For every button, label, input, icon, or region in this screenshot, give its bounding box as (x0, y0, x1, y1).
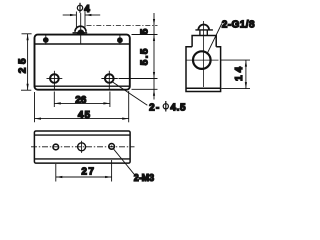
dim 45 dimension line (35, 118, 129, 120)
G1/8 port circle (187, 51, 219, 69)
hole 4.5 left (47, 71, 63, 90)
plunger top dash-dot line (87, 24, 158, 26)
screw hole top-right (filled) (117, 35, 123, 44)
dim 14 extension lines (221, 60, 250, 89)
bottom view centerline (31, 146, 135, 148)
label 2-G1/8 (222, 19, 255, 30)
svg-text:5.5: 5.5 (140, 48, 151, 65)
svg-text:27: 27 (81, 167, 94, 178)
dim 5 extension tick (body top) (132, 34, 158, 36)
bottom view outline (34, 131, 130, 163)
leader 2-phi4.5 (112, 82, 148, 106)
plunger centerline front (80, 13, 82, 44)
label 2-phi4.5 (149, 101, 186, 113)
label phi4 (77, 3, 90, 15)
svg-text:2-M3: 2-M3 (134, 173, 155, 184)
svg-text:2-G1/8: 2-G1/8 (222, 19, 255, 30)
M3 hole left (53, 144, 59, 150)
front view body outline (35, 35, 130, 90)
dim 27 extension lines (56, 160, 112, 182)
dim 26 extension lines (54, 92, 110, 108)
svg-text:4.5: 4.5 (170, 102, 186, 113)
label 2-M3 (134, 173, 155, 184)
dim 5.5 extension tick (bottom) (132, 88, 158, 90)
dim phi4 arrows (63, 14, 100, 16)
svg-text:2-: 2- (149, 102, 159, 113)
dim 25 extension lines (21, 34, 32, 90)
svg-text:26: 26 (75, 95, 87, 106)
front view flange line (35, 43, 130, 45)
M3 hole right (109, 144, 115, 150)
side view plunger dome (195, 24, 213, 35)
dim 5 / 5.5 vertical dimension line (153, 13, 155, 100)
front view bottom inner line (35, 85, 130, 87)
svg-text:45: 45 (78, 110, 91, 121)
svg-text:25: 25 (17, 58, 28, 73)
dim 26 dimension line (54, 102, 110, 104)
svg-text:5: 5 (140, 28, 151, 34)
side view centerline (203, 21, 205, 87)
dim 5.5 extension tick (hole line) (119, 78, 158, 80)
dim 14 dimension line (245, 60, 247, 89)
leader 2-M3 (113, 149, 136, 177)
label 45 (78, 110, 91, 121)
dim 45 extension lines (35, 91, 129, 122)
hole 4.5 right (101, 71, 117, 90)
leader 2-G1/8 (207, 24, 222, 55)
center stem hole (78, 141, 86, 153)
dim 25 dimension line (27, 34, 29, 90)
label 27 (81, 167, 94, 178)
label 5 (140, 28, 151, 34)
svg-text:4: 4 (84, 4, 90, 15)
label 5.5 (140, 48, 151, 65)
plunger dome front view (73, 26, 88, 34)
svg-text:14: 14 (234, 66, 245, 81)
label 25 (17, 58, 28, 73)
side view body outline (186, 36, 221, 92)
dim phi4 extension lines (76, 12, 85, 28)
label 26 (75, 95, 87, 106)
screw hole top-left (filled) (43, 35, 49, 44)
label 14 (234, 66, 245, 81)
dim 27 dimension line (56, 176, 112, 178)
